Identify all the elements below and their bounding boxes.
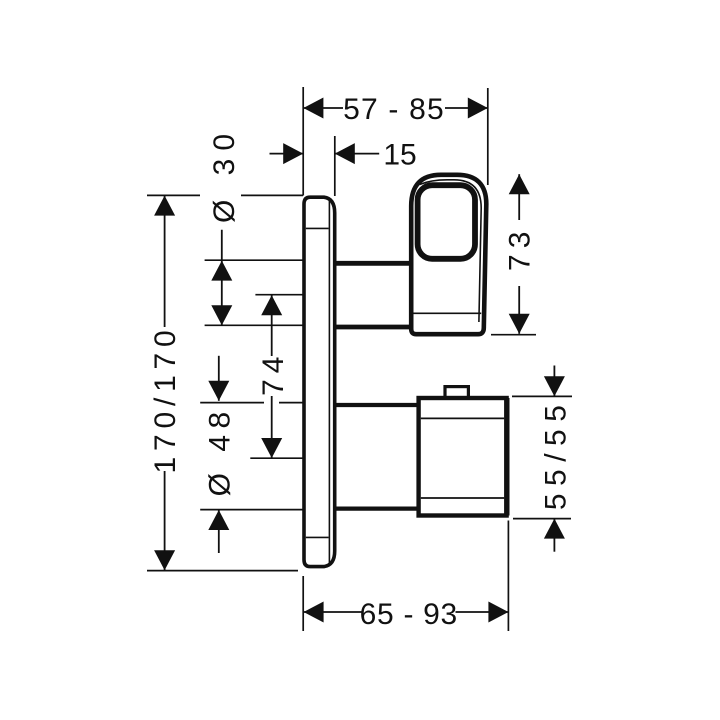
dimension line: Ø48 tails [218,356,220,401]
thermostat knob body [419,398,507,516]
lower stem top edge [335,403,420,407]
plate inner face line vertical [328,200,330,564]
handle outer body [411,175,486,334]
upper stem top edge [335,261,410,266]
knob inner line top [421,417,504,419]
arrow 55/55 top (down, outside) [544,376,565,396]
handle hole ring [418,185,475,259]
extension line: knob top (55/55) [512,395,572,397]
arrow Ø48 top (down, outside) [208,381,229,401]
arrow 170/170 top (up) [154,196,175,216]
svg-text:170/170: 170/170 [149,324,182,473]
arrow 73 down [509,314,530,334]
knob inner line bottom [421,497,504,499]
extension line: stem2 top (Ø48) [200,402,264,404]
arrow 55/55 bottom (up, outside) [544,519,565,539]
svg-text:Ø 48: Ø 48 [204,405,237,496]
arrow 74 down [261,438,282,458]
dimension line: 170/170 [164,196,166,327]
plate inner edge top [306,227,329,229]
handle inner face thin line [420,180,482,322]
knob right edge reinforcement [504,398,509,516]
extension line: stem1 bottom (Ø30) [205,324,336,326]
arrow 57-85 right [468,98,488,119]
wall plate (escutcheon) side view [304,197,335,566]
extension line: plate front face vertical (top) [302,87,304,196]
extension line: knob bottom (55/55) [513,518,571,520]
dimension line: 57-85 [303,107,343,109]
svg-text:65 - 93: 65 - 93 [360,598,458,631]
extension line: handle front face vertical (57-85 right) [487,88,489,185]
svg-text:Ø 30: Ø 30 [208,126,241,223]
extension line: 170/170 bottom horizontal [147,570,298,572]
svg-text:55/55: 55/55 [540,398,573,511]
svg-text:73: 73 [504,226,537,271]
upper stem bottom edge [335,325,410,330]
arrow 74 up [261,295,282,315]
dimension line: 15 [270,153,304,155]
extension line: 170/170 top horizontal [147,194,200,196]
svg-text:74: 74 [257,351,290,396]
arrow 65-93 left [304,602,324,623]
extension line: plate back face vertical (15 dim) [334,136,336,196]
extension line: 65-93 right vertical [507,521,509,632]
extension line: upper centerline (74 top) [255,294,324,296]
arrow 15 right (points left) [335,143,355,164]
dimension line: 55/55 tails [553,366,555,397]
svg-text:57 - 85: 57 - 85 [343,93,445,126]
dimension line: Ø30 leader and span [221,230,223,326]
knob tab on top [445,387,468,399]
dimension line: 74 [271,295,273,356]
arrow Ø48 bottom (up, outside) [208,510,229,530]
extension line: stem1 top (Ø30) [205,259,336,261]
extension line: handle bottom (73) [491,334,536,336]
handle hub line [414,312,482,314]
svg-text:15: 15 [383,139,416,172]
arrow 65-93 right [488,602,508,623]
extension line: 65-93 left vertical [302,576,304,631]
dimension line: 73 [518,174,520,220]
lower stem bottom edge [335,507,420,511]
plate inner edge bottom [306,536,329,538]
arrow Ø30 down [211,305,232,325]
arrow 73 up [509,174,530,194]
arrow Ø30 up [211,261,232,281]
arrow 170/170 bottom (down) [154,550,175,570]
dimension line: 65-93 [304,611,363,613]
extension line: stem2 bottom (Ø48) [200,509,336,511]
extension line: lower centerline (74 bottom) [250,457,336,459]
arrow 15 left (points right) [283,143,303,164]
arrow 57-85 left [303,98,323,119]
